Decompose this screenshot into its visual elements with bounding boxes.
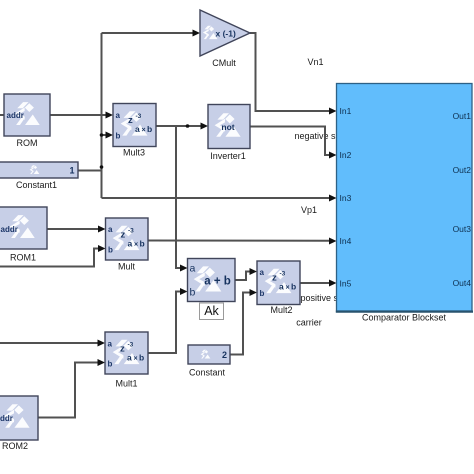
svg-text:Mult1: Mult1 [115, 379, 137, 389]
svg-text:CMult: CMult [212, 58, 236, 68]
svg-text:Mult2: Mult2 [270, 305, 292, 315]
wire Constant out to Mult2.b [230, 293, 251, 355]
svg-text:Out1: Out1 [453, 111, 472, 121]
wire ROM1 to Mult.a [47, 228, 99, 230]
wire Mult3 out to Inverter1 [156, 125, 201, 127]
svg-text:x (-1): x (-1) [216, 29, 236, 39]
svg-text:Ak: Ak [204, 304, 219, 318]
wire Mult out to In4 [148, 240, 330, 242]
svg-text:ROM: ROM [17, 138, 38, 148]
svg-text:a: a [127, 353, 132, 363]
svg-text:Out2: Out2 [453, 165, 472, 175]
svg-text:Constant: Constant [189, 368, 226, 378]
wire ROM to Mult3.a [50, 114, 106, 116]
svg-text:negative sin: negative sin [295, 131, 343, 141]
block CMult [200, 10, 250, 68]
svg-text:addr: addr [7, 111, 24, 120]
junction dot Mult3.b branch [100, 133, 104, 137]
svg-text:Inverter1: Inverter1 [210, 151, 246, 161]
block Mult3 [113, 104, 156, 158]
junction dot Constant1 tee [100, 165, 104, 169]
svg-text:-3: -3 [136, 113, 142, 120]
svg-text:Out3: Out3 [453, 224, 472, 234]
svg-text:1: 1 [69, 166, 74, 176]
svg-text:a: a [135, 124, 140, 134]
svg-text:b: b [147, 124, 152, 134]
svg-text:z: z [121, 230, 126, 241]
block Mult1 [105, 332, 148, 389]
svg-text:ROM2: ROM2 [2, 441, 28, 451]
svg-text:b: b [116, 132, 121, 141]
block Mult2 [257, 261, 300, 315]
wire vertical net Constant1 [101, 33, 103, 198]
svg-text:-3: -3 [280, 271, 286, 278]
wire left edge to Mult1.a [0, 342, 99, 344]
block ROM [4, 94, 50, 148]
svg-text:In2: In2 [340, 150, 352, 160]
block Constant1 [0, 162, 78, 190]
junction dot Mult3 out branch [186, 124, 190, 128]
svg-text:-3: -3 [128, 342, 134, 349]
svg-text:Constant1: Constant1 [16, 180, 57, 190]
svg-text:z: z [272, 273, 277, 284]
svg-text:Vp1: Vp1 [301, 205, 317, 215]
svg-text:a: a [190, 263, 196, 275]
svg-text:z: z [128, 115, 133, 126]
svg-text:b: b [140, 239, 145, 249]
svg-text:×: × [134, 242, 138, 249]
block Inverter1 [208, 105, 250, 162]
svg-text:×: × [286, 285, 290, 292]
svg-text:a: a [108, 225, 113, 234]
svg-text:b: b [190, 287, 196, 299]
svg-text:b: b [108, 246, 113, 255]
svg-text:addr: addr [1, 225, 18, 234]
wire ROM2 to Mult1.b [38, 363, 99, 418]
block Mult [106, 218, 149, 272]
svg-text:a: a [108, 340, 113, 349]
svg-text:a + b: a + b [204, 276, 231, 288]
wire ROM addr input stub [0, 114, 4, 116]
wire Mult2 out to In5 [300, 282, 330, 284]
svg-text:In1: In1 [340, 106, 352, 116]
wire Mult3 out branch to AddSub.a [176, 126, 181, 268]
block Constant [188, 345, 230, 378]
svg-text:a: a [260, 268, 265, 277]
svg-text:×: × [134, 356, 138, 363]
svg-text:Mult3: Mult3 [123, 148, 145, 158]
svg-text:2: 2 [222, 350, 227, 360]
svg-text:b: b [291, 282, 296, 292]
wire net to In3 [102, 197, 331, 199]
svg-text:a: a [116, 111, 121, 120]
wire AddSub out to Mult2.a [235, 272, 251, 281]
svg-text:a: a [279, 282, 284, 292]
wire Constant1 to vertical net [78, 170, 102, 172]
svg-text:carrier: carrier [296, 318, 322, 328]
svg-text:In3: In3 [340, 193, 352, 203]
svg-text:b: b [260, 289, 265, 298]
wire left edge to Mult.b [0, 249, 99, 267]
block ROM1 [0, 207, 47, 263]
svg-text:b: b [108, 360, 113, 369]
block AddSub Ak [188, 259, 236, 320]
wire net branch to Mult3.b [102, 134, 107, 136]
svg-text:Mult: Mult [118, 262, 136, 272]
wire Mult1 out to AddSub.b [148, 292, 181, 354]
svg-text:Comparator Blockset: Comparator Blockset [362, 313, 447, 323]
svg-text:Out4: Out4 [453, 278, 472, 288]
svg-text:addr: addr [0, 414, 13, 423]
svg-text:-3: -3 [128, 228, 134, 235]
svg-text:ROM1: ROM1 [10, 253, 36, 263]
svg-text:In5: In5 [340, 279, 352, 289]
svg-text:b: b [139, 353, 144, 363]
block ROM2 [0, 396, 38, 451]
wire net to CMult input [102, 32, 194, 34]
svg-text:Vn1: Vn1 [307, 57, 323, 67]
block Comparator Blockset [336, 84, 473, 323]
svg-text:not: not [221, 122, 234, 132]
svg-text:×: × [142, 127, 146, 134]
wire Inverter1 out to In2 [250, 127, 330, 156]
svg-text:a: a [128, 239, 133, 249]
svg-text:In4: In4 [340, 236, 352, 246]
wire CMult out to In1 [250, 33, 330, 111]
svg-text:z: z [120, 344, 125, 355]
